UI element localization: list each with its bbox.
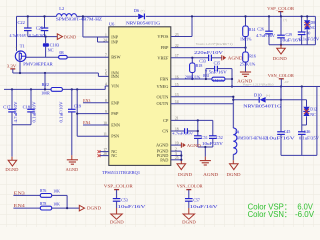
svg-text:C53: C53 — [121, 199, 128, 203]
svg-text:VSP_COLOR: VSP_COLOR — [104, 184, 133, 189]
capacitor C30 — [301, 16, 303, 32]
svg-text:AGND: AGND — [156, 143, 168, 148]
svg-text:10uF/16V: 10uF/16V — [190, 205, 218, 209]
ground DGND (C57) — [183, 214, 195, 219]
capacitor C17 — [11, 89, 13, 109]
svg-text:(+): (+) — [266, 93, 270, 97]
svg-text:C18: C18 — [23, 104, 31, 109]
wire top rail mid — [77, 15, 138, 17]
wire PGND PAD bracket — [171, 150, 182, 152]
diode D6 — [138, 14, 144, 20]
capacitor C103 (NC) — [45, 37, 47, 44]
wire INP bracket — [97, 37, 99, 42]
svg-text:PAD: PAD — [160, 157, 168, 162]
svg-text:L2: L2 — [59, 6, 64, 11]
svg-text:253K/1%: 253K/1% — [240, 63, 256, 67]
svg-text:7.5nF/16V: 7.5nF/16V — [205, 70, 227, 74]
svg-text:NC: NC — [48, 47, 54, 52]
svg-text:EN4: EN4 — [14, 203, 26, 208]
svg-text:C19: C19 — [74, 103, 82, 108]
wire cap bottoms join — [12, 124, 31, 126]
svg-text:C29: C29 — [286, 33, 293, 37]
wire compensation box — [205, 69, 207, 79]
svg-text:FBN: FBN — [160, 77, 168, 82]
svg-text:C25: C25 — [36, 25, 44, 30]
wire top rail left — [17, 15, 57, 17]
wire EN3 — [13, 194, 40, 196]
diode D10 — [258, 97, 260, 103]
svg-text:10K: 10K — [53, 190, 60, 194]
wire VSP right boundary — [314, 16, 316, 44]
svg-text:DGND: DGND — [110, 219, 124, 224]
svg-text:C52: C52 — [216, 136, 223, 140]
power port DGND (EN pulldowns) — [79, 205, 84, 211]
svg-text:DGND: DGND — [64, 35, 77, 40]
capacitor C18 — [30, 89, 32, 109]
capacitor C52 — [212, 120, 214, 135]
svg-text:11: 11 — [103, 133, 107, 137]
transistor T1 PMV30EPEAR — [15, 51, 26, 62]
diode D12 (NC) — [306, 100, 308, 107]
svg-text:C22: C22 — [18, 20, 25, 25]
ground AGND (charge pump) — [200, 160, 211, 162]
svg-text:10: 10 — [103, 121, 107, 125]
capacitor C25 — [44, 16, 46, 28]
svg-text:4: 4 — [105, 82, 107, 86]
svg-text:10uF/25V: 10uF/25V — [202, 142, 223, 146]
svg-text:0.1uF/35V: 0.1uF/35V — [299, 38, 319, 42]
svg-text:VPOS: VPOS — [157, 34, 169, 39]
svg-text:NRVB0540T1G: NRVB0540T1G — [243, 103, 281, 108]
svg-text:D12: D12 — [310, 108, 317, 112]
svg-text:R14: R14 — [249, 28, 256, 32]
svg-text:1M/1%: 1M/1% — [240, 38, 252, 42]
svg-text:ENN: ENN — [111, 123, 120, 128]
svg-text:6: 6 — [105, 73, 107, 77]
wire INP feed — [82, 16, 84, 37]
svg-text:24: 24 — [103, 38, 107, 42]
svg-text:C26: C26 — [257, 28, 264, 32]
svg-text:10uF/16V: 10uF/16V — [118, 205, 146, 209]
ground AGND (left) — [67, 159, 78, 161]
svg-text:0R: 0R — [59, 51, 64, 55]
svg-text:DGND: DGND — [227, 172, 241, 177]
wire INN bracket — [97, 73, 99, 76]
svg-text:VNEG: VNEG — [156, 84, 168, 89]
resistor R31 — [212, 77, 225, 81]
svg-text:VREF: VREF — [157, 55, 169, 60]
svg-text:DGND: DGND — [5, 167, 18, 172]
svg-text:DGND: DGND — [178, 172, 192, 177]
svg-text:*: * — [16, 46, 18, 50]
ground DGND (PGND) — [177, 164, 186, 170]
capacitor C22 — [27, 16, 29, 28]
wire FBN — [171, 78, 212, 80]
wire VPOS to top rail — [171, 36, 192, 38]
svg-text:AGND: AGND — [203, 172, 218, 177]
svg-text:-6V: -6V — [284, 80, 290, 84]
capacitor C45 — [280, 87, 282, 132]
svg-text:Color VSN：: Color VSN： — [248, 210, 292, 219]
svg-text:1: 1 — [105, 33, 107, 37]
svg-text:SPM5030T-4R7M-HZ: SPM5030T-4R7M-HZ — [56, 16, 103, 21]
svg-text:7: 7 — [105, 54, 107, 58]
capacitor C33 — [208, 55, 210, 61]
wire riser to VIN rail — [44, 73, 46, 89]
capacitor C53 — [113, 198, 121, 200]
wire CP — [171, 119, 213, 121]
svg-text:R78: R78 — [40, 202, 46, 206]
svg-text:-6.0V: -6.0V — [295, 210, 315, 219]
svg-text:EN3: EN3 — [83, 98, 90, 103]
svg-text:C57: C57 — [193, 199, 200, 203]
svg-text:CN: CN — [162, 129, 168, 134]
svg-text:AGND: AGND — [228, 55, 243, 60]
capacitor C46 — [301, 87, 303, 132]
capacitor C35 — [214, 66, 216, 72]
resistor 0R — [59, 55, 68, 59]
svg-text:3.3V: 3.3V — [7, 63, 16, 68]
svg-text:OUTN: OUTN — [156, 101, 168, 106]
svg-text:VIN: VIN — [111, 84, 119, 89]
wire T1 drain to BSW with 0R resistor — [26, 56, 59, 58]
svg-text:C51: C51 — [201, 136, 208, 140]
power port AGND (pin 19) — [171, 144, 182, 146]
svg-text:1M/1%: 1M/1% — [213, 79, 225, 83]
svg-text:T1: T1 — [20, 44, 25, 49]
op-amp U6 TPS65131 body — [109, 27, 171, 166]
power port AGND (at C33) — [221, 55, 223, 60]
svg-text:(+): (+) — [141, 9, 145, 13]
wire FBN to VNEG divider — [231, 69, 233, 87]
wire CN with flying cap — [171, 130, 185, 132]
svg-text:U6: U6 — [109, 21, 115, 26]
svg-text:EN4: EN4 — [83, 120, 90, 125]
svg-text:Vout=1.213*(Ra/Rb+1): Vout=1.213*(Ra/Rb+1) — [196, 42, 233, 46]
svg-text:(+): (+) — [283, 18, 287, 22]
svg-text:D8: D8 — [310, 21, 315, 25]
wire C51 C52 ground rail — [198, 146, 213, 148]
wire VNEG / VSN rail — [171, 86, 320, 88]
svg-text:OUTN: OUTN — [156, 94, 168, 99]
svg-text:AGND: AGND — [237, 78, 252, 83]
svg-text:4.7uF/10V: 4.7uF/10V — [14, 101, 18, 122]
svg-text:C46: C46 — [304, 130, 311, 134]
svg-text:FBP: FBP — [161, 45, 169, 50]
svg-text:BSW: BSW — [111, 55, 121, 60]
capacitor C57 — [185, 198, 193, 200]
svg-text:100R: 100R — [41, 92, 50, 96]
svg-text:NC: NC — [310, 113, 316, 117]
resistor R16 — [245, 48, 247, 52]
svg-text:PSN: PSN — [111, 134, 119, 139]
wire INN net (3.3V rail) — [13, 72, 99, 74]
svg-text:C33: C33 — [199, 60, 206, 64]
svg-text:NC: NC — [111, 153, 117, 158]
ground DGND (under L4) — [230, 164, 239, 170]
svg-text:NRVB0540T1G: NRVB0540T1G — [126, 21, 160, 26]
svg-text:C35: C35 — [214, 62, 221, 66]
wire EN4 — [13, 207, 40, 209]
svg-text:D10: D10 — [254, 92, 262, 97]
resistor R22 — [51, 88, 62, 92]
svg-text:DGND: DGND — [182, 219, 196, 224]
svg-text:8: 8 — [105, 99, 107, 103]
svg-text:EN3: EN3 — [14, 190, 25, 195]
capacitor C26 — [268, 16, 270, 31]
svg-text:VSN_COLOR: VSN_COLOR — [177, 184, 203, 189]
diode D8 (NC) — [306, 16, 308, 20]
svg-text:C17: C17 — [3, 104, 11, 109]
svg-text:NC: NC — [310, 26, 316, 30]
svg-text:TPS65131TRGERQ1: TPS65131TRGERQ1 — [102, 170, 140, 175]
svg-text:INP: INP — [111, 40, 119, 45]
wire EN3 join EN4 — [66, 195, 68, 208]
wire VIN rail left — [4, 88, 51, 90]
ground DGND (VSP caps) — [280, 45, 282, 48]
svg-text:AGND: AGND — [187, 143, 201, 148]
wire bend into VIN pin — [104, 86, 106, 89]
svg-text:ENP: ENP — [111, 100, 120, 105]
svg-text:4.7nF/25V: 4.7nF/25V — [172, 131, 194, 135]
svg-text:VSN_COLOR: VSN_COLOR — [268, 73, 294, 78]
resistor R14 — [245, 16, 247, 26]
svg-text:R18: R18 — [196, 64, 203, 68]
capacitor C51 — [197, 120, 199, 135]
ground AGND (under R16) — [240, 71, 251, 73]
ground DGND (left) — [8, 160, 17, 166]
svg-text:INN: INN — [111, 74, 119, 79]
capacitor C50 4.7nF — [184, 128, 186, 134]
svg-text:4.7uF/16V: 4.7uF/16V — [10, 34, 27, 38]
svg-text:VSP_COLOR: VSP_COLOR — [267, 6, 294, 11]
svg-text:220nF/10V: 220nF/10V — [194, 51, 223, 55]
NC pin stubs with no-connect marks — [100, 151, 109, 153]
svg-text:D6: D6 — [134, 8, 140, 13]
svg-text:9: 9 — [105, 110, 107, 114]
svg-text:CP: CP — [163, 118, 169, 123]
wire VSP cap ground rail — [269, 44, 315, 46]
wire OUTN pins — [171, 96, 234, 98]
svg-text:4.7uF/16V: 4.7uF/16V — [256, 34, 275, 38]
svg-text:0.1uF/16V: 0.1uF/16V — [29, 34, 46, 38]
power port DGND (top-left) — [57, 34, 62, 40]
svg-text:0.1uF/10V: 0.1uF/10V — [59, 101, 63, 122]
svg-text:0.1uF/35V: 0.1uF/35V — [299, 137, 319, 141]
capacitor C29 — [280, 16, 282, 35]
ground DGND (C53) — [111, 214, 123, 219]
svg-text:AGND: AGND — [66, 167, 79, 172]
wire VSN right boundary — [316, 87, 318, 156]
wire left drop to T1 — [16, 16, 18, 51]
wire switch node to D10 — [233, 99, 259, 101]
svg-text:R76: R76 — [40, 189, 46, 193]
inductor L2 — [57, 14, 77, 17]
wire VSN cap ground rail — [281, 154, 317, 156]
resistor R18 — [191, 58, 193, 63]
svg-text:C45: C45 — [284, 130, 291, 134]
svg-text:DGND: DGND — [273, 56, 287, 61]
svg-text:PSP: PSP — [111, 111, 119, 116]
wire PSP PSN feed — [76, 89, 78, 136]
wire VIN rail right — [62, 88, 105, 90]
svg-text:R22: R22 — [42, 82, 49, 87]
svg-text:0.1uF/10V: 0.1uF/10V — [33, 101, 37, 122]
svg-text:R16: R16 — [249, 55, 256, 59]
svg-text:DGND: DGND — [87, 205, 101, 210]
svg-text:SPM5030T-4R7M-HZ: SPM5030T-4R7M-HZ — [237, 137, 269, 141]
resistor R76 — [40, 194, 51, 198]
capacitor C19 — [71, 89, 73, 109]
wire top rail right of D6 — [146, 15, 316, 17]
wire down to DGND — [11, 125, 13, 157]
svg-text:PMV30EPEAR: PMV30EPEAR — [23, 61, 53, 66]
wire cap bottoms to DGND port — [28, 36, 58, 38]
svg-text:10uF/16V: 10uF/16V — [266, 137, 295, 141]
wire VREF — [171, 57, 209, 59]
resistor R78 — [40, 206, 51, 210]
wire FBP — [171, 47, 246, 49]
svg-text:10K: 10K — [53, 202, 60, 206]
